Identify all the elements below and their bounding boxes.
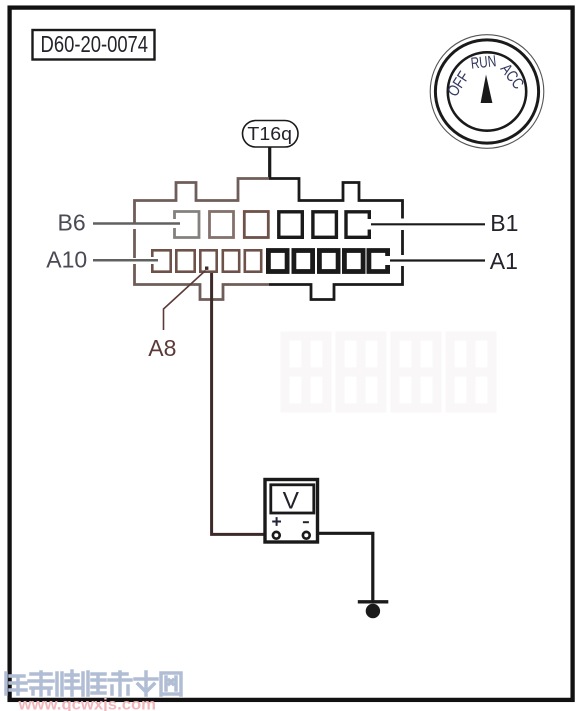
wire pin A8 to voltmeter plus terminal <box>212 273 272 534</box>
leader line A10 <box>93 259 158 262</box>
svg-text:A1: A1 <box>490 248 518 274</box>
pin A8 <box>200 250 216 271</box>
svg-text:D60-20-0074: D60-20-0074 <box>41 31 149 57</box>
leader line B1 <box>371 223 485 225</box>
switch pointer <box>481 75 493 104</box>
char 3 <box>57 671 80 695</box>
pin A9 <box>176 250 194 271</box>
pin B1 <box>346 212 369 238</box>
svg-text:A10: A10 <box>46 246 87 272</box>
char 6 <box>135 672 157 695</box>
wire voltmeter minus to ground <box>318 533 373 603</box>
connector label T16q <box>243 121 299 148</box>
leader line B6 <box>93 222 180 225</box>
pin B2 <box>313 212 337 238</box>
pin A2 <box>344 251 363 272</box>
pin B4 <box>244 212 268 238</box>
ground G1 <box>358 602 389 618</box>
leader line A1 <box>390 259 485 261</box>
svg-text:A8: A8 <box>148 335 176 361</box>
svg-text:T16q: T16q <box>247 123 292 144</box>
pin B3 <box>279 212 303 238</box>
char 5 <box>109 672 131 695</box>
pin A6 <box>245 250 261 271</box>
pin A3 <box>319 251 338 272</box>
char 2 <box>29 672 53 695</box>
char 1 <box>6 673 26 694</box>
pin B5 <box>210 212 234 238</box>
leader line A8 <box>164 271 206 331</box>
wire T16q label to connector shell <box>268 147 271 178</box>
bottom-left site watermark (CJK drawn as vector blocks) <box>6 671 181 695</box>
pin A10 <box>152 250 170 271</box>
pin A1 <box>369 251 388 272</box>
ignition switch S1 <box>430 35 544 149</box>
voltmeter plus terminal <box>273 532 280 539</box>
svg-text:www.qcwxjs.com: www.qcwxjs.com <box>17 697 156 711</box>
char 4 <box>83 672 105 695</box>
svg-text:B6: B6 <box>58 209 86 235</box>
pin A4 <box>294 251 313 272</box>
pin A7 <box>223 250 239 271</box>
voltmeter minus terminal <box>303 532 310 539</box>
svg-text:RUN: RUN <box>470 53 497 73</box>
char 7 <box>161 673 181 695</box>
pin B6 <box>175 212 200 238</box>
diagram ID label D60-20-0074 <box>33 30 155 60</box>
svg-text:V: V <box>283 487 300 514</box>
svg-text:B1: B1 <box>490 210 518 236</box>
connector T16q shell outline <box>135 179 403 300</box>
pin A5 <box>268 251 287 272</box>
faint center watermark <box>285 336 492 408</box>
voltmeter V1 <box>265 480 318 543</box>
